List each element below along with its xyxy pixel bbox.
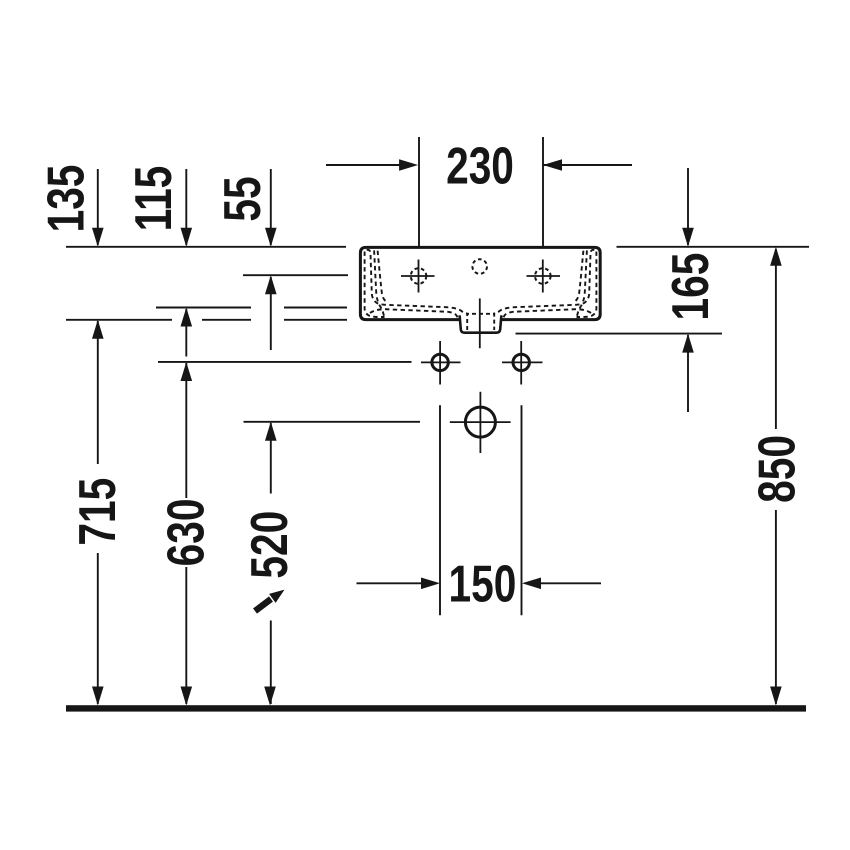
svg-text:630: 630 [157,498,215,566]
svg-text:55: 55 [213,176,271,221]
svg-text:230: 230 [446,137,514,195]
svg-text:715: 715 [68,478,126,546]
svg-text:165: 165 [661,253,719,321]
svg-text:135: 135 [37,165,95,233]
svg-text:150: 150 [448,555,516,613]
svg-text:115: 115 [125,166,183,232]
svg-text:520: 520 [240,511,298,579]
svg-text:850: 850 [748,435,806,503]
